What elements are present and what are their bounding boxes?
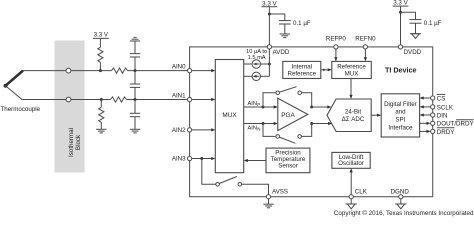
wire intref to refmux bbox=[321, 69, 329, 71]
svg-text:DIN: DIN bbox=[437, 112, 448, 119]
pin AIN3 bbox=[188, 156, 192, 160]
svg-text:DOUT/DRDY: DOUT/DRDY bbox=[437, 121, 474, 128]
wire bbox=[134, 41, 136, 54]
wire AIN1 line bbox=[22, 99, 111, 101]
switch bypass bottom left contact bbox=[276, 135, 280, 139]
svg-text:Reference: Reference bbox=[337, 64, 366, 71]
wire AVDD rail down bbox=[268, 49, 270, 76]
ground triangle DVDD bbox=[410, 33, 421, 35]
switch bypass bottom right contact bbox=[298, 135, 302, 139]
switch AVSS contact left bbox=[216, 183, 220, 187]
resistor bias pull-down bbox=[100, 100, 102, 108]
svg-text:MUX: MUX bbox=[345, 71, 359, 78]
node bbox=[268, 13, 271, 16]
svg-text:PGA: PGA bbox=[281, 112, 295, 119]
wire to AVSS bbox=[242, 184, 269, 194]
ground bbox=[130, 128, 140, 130]
wire AINP bbox=[244, 106, 275, 108]
resistor bias pull-up bbox=[98, 47, 103, 62]
wire PGA bypass bottom left bbox=[263, 124, 276, 137]
wire AIN3 down bbox=[202, 159, 216, 185]
wire temp sensor to MUX bbox=[247, 160, 266, 162]
pin AIN2 bbox=[188, 128, 192, 132]
svg-text:Internal: Internal bbox=[291, 64, 312, 71]
wire REFP0 to ref mux bbox=[335, 49, 337, 59]
pin AIN0 bbox=[188, 69, 192, 73]
switch lever bbox=[219, 177, 237, 184]
node AIN0/bias junction bbox=[99, 69, 102, 72]
capacitor 0.1uF DVDD bbox=[410, 19, 422, 21]
ground AVSS bbox=[268, 199, 270, 204]
svg-text:N: N bbox=[257, 127, 260, 132]
svg-text:Copyright © 2016, Texas Instru: Copyright © 2016, Texas Instruments Inco… bbox=[334, 210, 474, 217]
resistor AIN0 series bbox=[112, 68, 128, 73]
svg-text:DGND: DGND bbox=[391, 189, 410, 196]
wire refmux to adc bbox=[350, 79, 352, 97]
wire PGA out P to ADC bbox=[312, 106, 329, 108]
wire AIN0 line bbox=[23, 70, 112, 72]
pin AIN1 bbox=[188, 97, 192, 101]
node bbox=[399, 11, 402, 14]
ADC 24-bit delta-sigma bbox=[327, 99, 371, 132]
node AIN3 branch bbox=[200, 157, 203, 160]
svg-text:TI Device: TI Device bbox=[385, 66, 417, 75]
svg-text:Interface: Interface bbox=[388, 124, 413, 131]
wire to cap bbox=[269, 14, 284, 21]
svg-text:CS: CS bbox=[437, 95, 446, 102]
switch bypass bottom lever bbox=[279, 137, 295, 143]
svg-text:MUX: MUX bbox=[222, 112, 237, 119]
node bbox=[262, 106, 265, 109]
wire CLK to oscillator bbox=[350, 171, 352, 194]
wire bbox=[99, 38, 101, 47]
current source I1 bbox=[244, 63, 252, 65]
pin DVDD bbox=[398, 45, 402, 49]
pin DGND bbox=[399, 195, 403, 199]
terminal circle bottom bbox=[66, 97, 71, 102]
wire AIN1 to MUX bbox=[192, 99, 212, 101]
svg-text:Block: Block bbox=[75, 134, 82, 150]
svg-text:REFP0: REFP0 bbox=[326, 36, 347, 43]
wire PGA bypass top right bbox=[302, 93, 312, 107]
wire PGA bypass bottom right bbox=[302, 124, 312, 137]
node AIN1/bias junction bbox=[100, 98, 103, 101]
svg-text:AVDD: AVDD bbox=[273, 49, 290, 56]
switch bypass top right contact bbox=[298, 91, 302, 95]
node bbox=[310, 122, 313, 125]
switch contact right bbox=[238, 183, 242, 187]
svg-text:AIN: AIN bbox=[248, 125, 257, 131]
ground bbox=[280, 33, 290, 35]
svg-text:CLK: CLK bbox=[355, 189, 368, 196]
svg-text:AIN3: AIN3 bbox=[172, 156, 186, 163]
switch bypass top left contact bbox=[276, 91, 280, 95]
svg-text:ΔΣ ADC: ΔΣ ADC bbox=[342, 116, 365, 123]
pin REFN0 bbox=[363, 45, 367, 49]
wire bbox=[134, 57, 136, 71]
node bbox=[310, 106, 313, 109]
wire AIN3 to MUX bbox=[192, 158, 212, 160]
reference mux block bbox=[332, 61, 372, 78]
svg-text:Oscillator: Oscillator bbox=[338, 160, 364, 167]
capacitor CM bottom bbox=[134, 100, 136, 114]
MUX U-mux bbox=[215, 60, 243, 173]
pin CS bbox=[423, 97, 431, 99]
wire AIN2 to MUX bbox=[192, 129, 212, 131]
capacitor CM top bbox=[130, 53, 140, 55]
svg-text:0.1 µF: 0.1 µF bbox=[424, 20, 442, 27]
svg-text:AVSS: AVSS bbox=[272, 189, 288, 196]
svg-text:Thermocouple: Thermocouple bbox=[1, 106, 41, 113]
ground triangle DGND bbox=[400, 199, 402, 204]
node bbox=[262, 122, 265, 125]
capacitor differential bbox=[134, 71, 136, 84]
internal reference block bbox=[283, 61, 321, 78]
op-amp PGA bbox=[278, 98, 308, 130]
terminal circle top bbox=[66, 68, 71, 73]
isothermal block bbox=[55, 41, 85, 173]
svg-text:P: P bbox=[257, 102, 260, 107]
pin REFP0 bbox=[334, 45, 338, 49]
oscillator block bbox=[332, 152, 370, 168]
svg-text:SPI: SPI bbox=[395, 117, 405, 124]
svg-text:SCLK: SCLK bbox=[437, 104, 454, 111]
svg-text:Sensor: Sensor bbox=[278, 162, 298, 169]
temperature sensor block bbox=[266, 148, 310, 173]
node bbox=[268, 63, 271, 66]
svg-text:AIN: AIN bbox=[248, 101, 257, 107]
ground flipped above cap bbox=[133, 36, 136, 38]
pin DRDY bbox=[420, 130, 428, 132]
pin SCLK bbox=[423, 106, 431, 108]
capacitor 0.1uF AVDD bbox=[279, 20, 291, 22]
resistor AIN1 series bbox=[111, 97, 127, 102]
isothermal block label bbox=[68, 128, 82, 157]
pin CLK bbox=[349, 195, 353, 199]
current source I2 bbox=[244, 75, 252, 77]
wire bbox=[99, 62, 101, 71]
wire PGA bypass top left bbox=[263, 93, 276, 107]
svg-text:AIN2: AIN2 bbox=[172, 127, 186, 134]
svg-text:3.3 V: 3.3 V bbox=[94, 32, 109, 39]
svg-text:24-Bit: 24-Bit bbox=[345, 109, 361, 116]
ground triangle CLK bbox=[350, 199, 352, 204]
digital filter SPI block bbox=[381, 94, 419, 137]
pin AVSS bbox=[266, 195, 270, 199]
thermocouple bbox=[4, 84, 8, 88]
svg-text:DVDD: DVDD bbox=[404, 49, 422, 56]
svg-text:Reference: Reference bbox=[288, 71, 317, 78]
svg-text:AIN0: AIN0 bbox=[172, 63, 186, 70]
node bbox=[134, 98, 137, 101]
svg-text:REFN0: REFN0 bbox=[355, 36, 376, 43]
TI device box bbox=[190, 47, 433, 197]
svg-text:and: and bbox=[395, 109, 406, 116]
pin DOUT/DRDY bbox=[420, 122, 428, 124]
wire AIN0 to MUX bbox=[192, 70, 212, 72]
wire REFN0 to ref mux bbox=[364, 49, 366, 59]
wire PGA out N to ADC bbox=[312, 123, 329, 125]
node bbox=[134, 69, 137, 72]
ground bbox=[96, 128, 106, 130]
svg-text:AIN1: AIN1 bbox=[172, 92, 186, 99]
wire AINN bbox=[244, 123, 275, 125]
pin AVDD bbox=[267, 45, 271, 49]
wire ADC to filter bbox=[371, 114, 378, 116]
svg-text:Digital Filter: Digital Filter bbox=[384, 101, 417, 108]
wire to cap bbox=[401, 12, 416, 19]
switch bypass top lever bbox=[279, 87, 296, 92]
svg-text:0.1 µF: 0.1 µF bbox=[293, 20, 311, 27]
pin DIN bbox=[423, 114, 431, 116]
svg-text:DRDY: DRDY bbox=[437, 129, 455, 136]
